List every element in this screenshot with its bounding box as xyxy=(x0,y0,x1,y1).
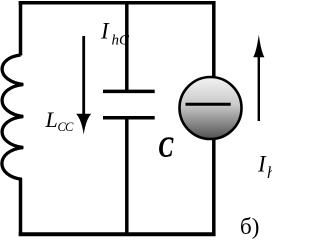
svg-text:I: I xyxy=(257,152,267,177)
svg-text:hC: hC xyxy=(112,33,131,49)
svg-text:б): б) xyxy=(240,214,259,239)
svg-text:CC: CC xyxy=(58,120,74,134)
svg-text:I: I xyxy=(100,19,110,44)
svg-text:C: C xyxy=(159,132,175,163)
svg-text:h: h xyxy=(267,163,272,182)
svg-text:L: L xyxy=(45,107,58,132)
